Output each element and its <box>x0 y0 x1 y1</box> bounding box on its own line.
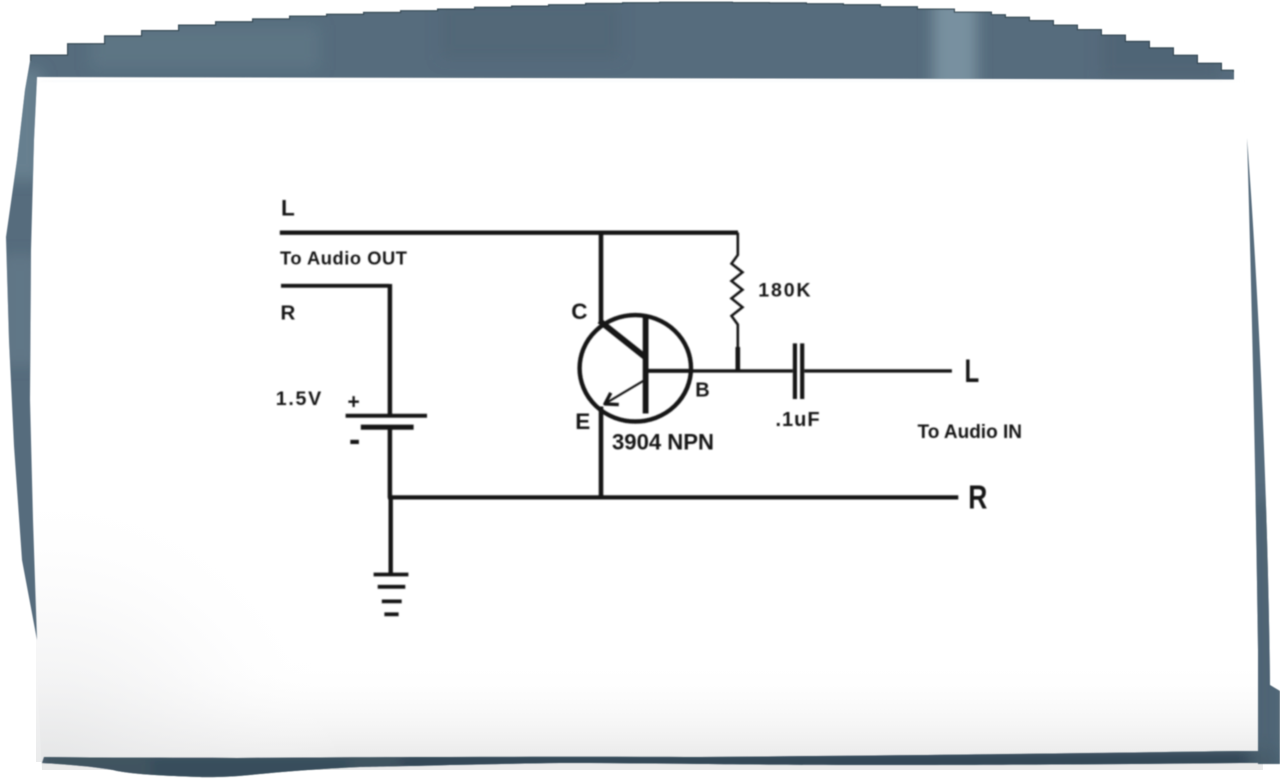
node L (left audio out, top rail) <box>280 231 738 235</box>
wire base <box>646 369 793 373</box>
svg-text:E: E <box>575 409 590 434</box>
svg-text:C: C <box>571 299 587 324</box>
wire R stub left <box>281 284 390 417</box>
wire emitter <box>599 407 604 500</box>
node R bottom rail <box>388 495 958 499</box>
svg-text:+: + <box>348 391 360 414</box>
battery B1 1.5V <box>346 416 427 444</box>
svg-text:L: L <box>281 196 295 221</box>
svg-text:L: L <box>965 354 980 390</box>
svg-text:3904 NPN: 3904 NPN <box>612 430 714 455</box>
svg-text:R: R <box>968 480 987 516</box>
wire collector <box>599 231 604 323</box>
wire battery to bottom rail <box>388 427 393 498</box>
capacitor C1 .1uF <box>795 343 802 399</box>
resistor R1 180K <box>732 233 743 371</box>
svg-text:1.5V: 1.5V <box>276 388 323 410</box>
svg-text:R: R <box>281 302 296 325</box>
svg-text:To Audio IN: To Audio IN <box>918 422 1022 443</box>
transistor Q1 3904 NPN <box>580 315 691 421</box>
svg-text:.1uF: .1uF <box>776 409 821 431</box>
ground <box>374 497 409 614</box>
svg-text:B: B <box>695 379 709 401</box>
svg-text:To Audio OUT: To Audio OUT <box>280 248 407 269</box>
wire to audio in L <box>804 369 952 372</box>
svg-text:180K: 180K <box>758 279 812 301</box>
